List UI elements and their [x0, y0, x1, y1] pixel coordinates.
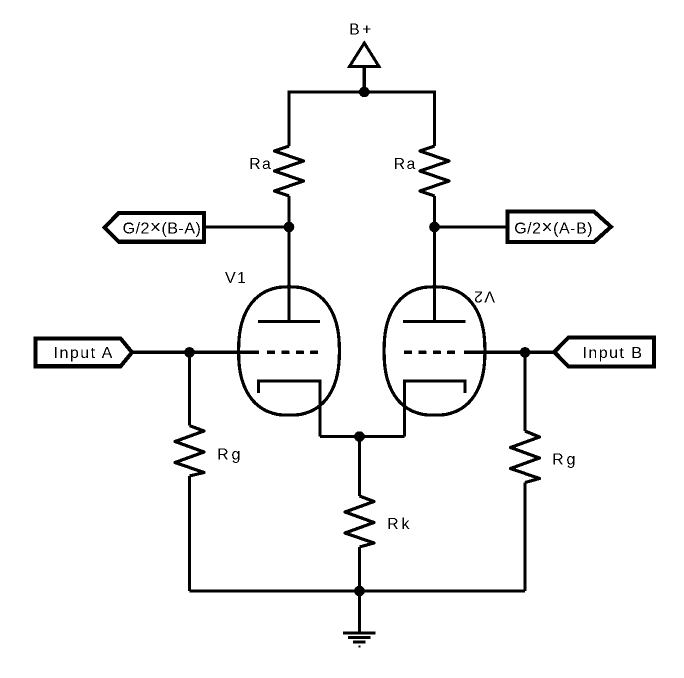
wire Input B to grid: [464, 351, 554, 354]
ground bar 1: [343, 631, 376, 634]
wire right output: [435, 225, 509, 228]
wire left output: [204, 225, 289, 228]
wire Rk lower: [358, 547, 361, 591]
resistor Rg right: [511, 431, 540, 483]
resistor Ra left: [275, 146, 304, 196]
wire right grid column: [523, 352, 526, 431]
wire bottom rail: [190, 589, 526, 592]
svg-text:V2: V2: [472, 288, 495, 305]
triode V1 plate: [258, 320, 320, 323]
junction dot Input A / Rg: [184, 347, 195, 358]
wire left anode column: [287, 196, 290, 322]
net tag G/2×(A-B): [508, 212, 611, 243]
junction dot B+ bus: [359, 87, 370, 98]
net tag G/2×(B-A): [105, 213, 204, 242]
junction dot right output: [429, 222, 440, 233]
power symbol B+ triangle: [350, 43, 380, 67]
wire top bus: [289, 92, 435, 146]
junction dot cathode rail: [354, 431, 365, 442]
ground stem: [358, 591, 361, 632]
triode V1 grid (dashed): [267, 351, 319, 354]
wire right anode column: [433, 196, 436, 322]
svg-text:B+: B+: [349, 22, 374, 39]
svg-text:Rk: Rk: [387, 516, 413, 533]
triode V2 envelope: [384, 287, 485, 415]
svg-text:Input B: Input B: [582, 345, 643, 362]
wire left grid column: [188, 352, 191, 425]
triode V2 cathode: [405, 381, 466, 437]
wire left grid column lower: [188, 476, 191, 591]
wire right grid column lower: [523, 483, 526, 592]
svg-text:Ra: Ra: [394, 156, 417, 173]
wire B+ stem: [363, 68, 366, 93]
ground bar 2: [348, 636, 371, 639]
svg-text:Ra: Ra: [249, 156, 272, 173]
triode V1 cathode: [259, 381, 321, 437]
svg-text:G/2×(A-B): G/2×(A-B): [514, 218, 593, 239]
wire cathode rail: [320, 435, 405, 438]
resistor Rg left: [175, 426, 204, 476]
svg-text:Rg: Rg: [552, 452, 578, 469]
junction dot left output: [284, 222, 295, 233]
wire Input A to grid: [132, 351, 259, 354]
triode V2 plate: [403, 320, 466, 323]
junction dot ground: [354, 586, 365, 597]
svg-text:G/2×(B-A): G/2×(B-A): [123, 218, 202, 239]
net tag Input B: [554, 338, 654, 367]
wire Rk upper: [358, 437, 361, 497]
junction dot Input B / Rg: [520, 347, 531, 358]
triode V1 envelope: [239, 287, 340, 415]
ground dot: [358, 645, 360, 648]
svg-text:V1: V1: [225, 270, 248, 287]
resistor Ra right: [420, 146, 449, 196]
resistor Rk: [345, 496, 374, 547]
ground bar 3: [353, 640, 366, 643]
net tag Input A: [36, 339, 133, 367]
svg-text:Input A: Input A: [54, 345, 114, 362]
svg-text:Rg: Rg: [217, 447, 243, 464]
triode V2 grid (dashed): [404, 351, 456, 354]
